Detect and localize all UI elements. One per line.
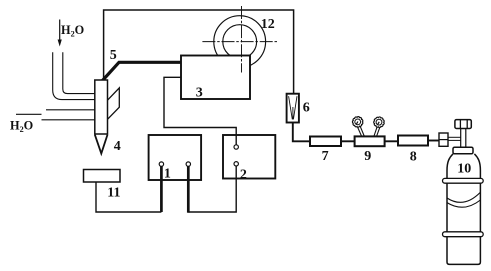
water pipe (bent, upper) <box>53 52 95 99</box>
svg-text:2: 2 <box>240 167 247 182</box>
rotary unit 12: inner circle <box>223 25 257 59</box>
svg-text:10: 10 <box>457 161 471 176</box>
box 1 <box>149 135 202 180</box>
gauge (right) on regulator 9 <box>374 117 384 137</box>
svg-text:H2O: H2O <box>10 119 33 134</box>
cable 5 (thick) from torch to box 3 <box>103 62 182 80</box>
svg-text:H2O: H2O <box>61 23 84 38</box>
regulator box 9 <box>355 136 385 146</box>
torch 4 nozzle tip <box>95 135 108 154</box>
wire: box 1 right terminal to box 2 bottom terminal <box>188 166 236 212</box>
wire: box 1 left terminal (thick) <box>160 166 163 212</box>
valve handwheel <box>455 120 471 129</box>
svg-text:1: 1 <box>164 167 171 182</box>
terminal in box 1 (right) <box>186 162 190 166</box>
cylinder 10 band (lower) <box>443 232 484 237</box>
pipe: box 7 to box 9 <box>341 140 355 142</box>
centerline vertical of 12 <box>241 6 243 73</box>
terminal in box 2 (bottom) <box>234 162 238 166</box>
svg-text:12: 12 <box>261 17 275 32</box>
svg-text:6: 6 <box>303 101 310 116</box>
cylinder 10 shoulder curve <box>447 192 480 202</box>
torch 4 body <box>95 80 108 134</box>
water pipe (lower, from left) <box>46 109 95 111</box>
box 3 <box>181 56 250 100</box>
box 8 <box>398 136 428 146</box>
flowmeter 6 <box>287 94 299 123</box>
rotary unit 12: outer circle <box>214 16 266 68</box>
box 2 <box>223 135 275 179</box>
svg-text:8: 8 <box>410 149 417 164</box>
wire: box 3 to box 2 top terminal <box>164 77 236 144</box>
svg-text:7: 7 <box>322 149 329 164</box>
svg-text:9: 9 <box>364 149 371 164</box>
pipe: fitting to valve stem (double line) <box>448 136 461 138</box>
svg-text:11: 11 <box>107 186 120 201</box>
box 11 <box>84 170 121 183</box>
wire: box 11 to box 1 left terminal <box>96 182 161 212</box>
H2O inlet arrow (top) <box>58 20 62 47</box>
pipe: box 8 to cylinder fitting <box>428 140 439 142</box>
cylinder 10 band (upper) <box>443 178 484 183</box>
svg-text:5: 5 <box>110 48 117 63</box>
terminal in box 2 (top) <box>234 145 238 149</box>
wire: top loop from torch to flowmeter <box>104 10 294 93</box>
pipe: box 9 to box 8 <box>385 140 398 142</box>
flowmeter 6 taper tube <box>289 96 297 119</box>
wire: box 1 right terminal (thick) <box>187 166 190 212</box>
cylinder 10 collar <box>453 147 473 154</box>
torch 4 side fin (parallelogram) <box>108 88 120 119</box>
svg-text:4: 4 <box>114 139 121 154</box>
cylinder valve fitting <box>439 133 448 146</box>
cylinder 10 body <box>447 154 480 265</box>
terminal in box 1 (left) <box>159 162 163 166</box>
box 7 <box>310 137 341 147</box>
pipe: flowmeter down to box 7 <box>293 123 310 142</box>
valve stem (double line) <box>460 129 462 148</box>
centerline horizontal of 12 <box>202 41 277 43</box>
svg-text:3: 3 <box>196 86 203 101</box>
gauge (left) on regulator 9 <box>352 117 364 137</box>
